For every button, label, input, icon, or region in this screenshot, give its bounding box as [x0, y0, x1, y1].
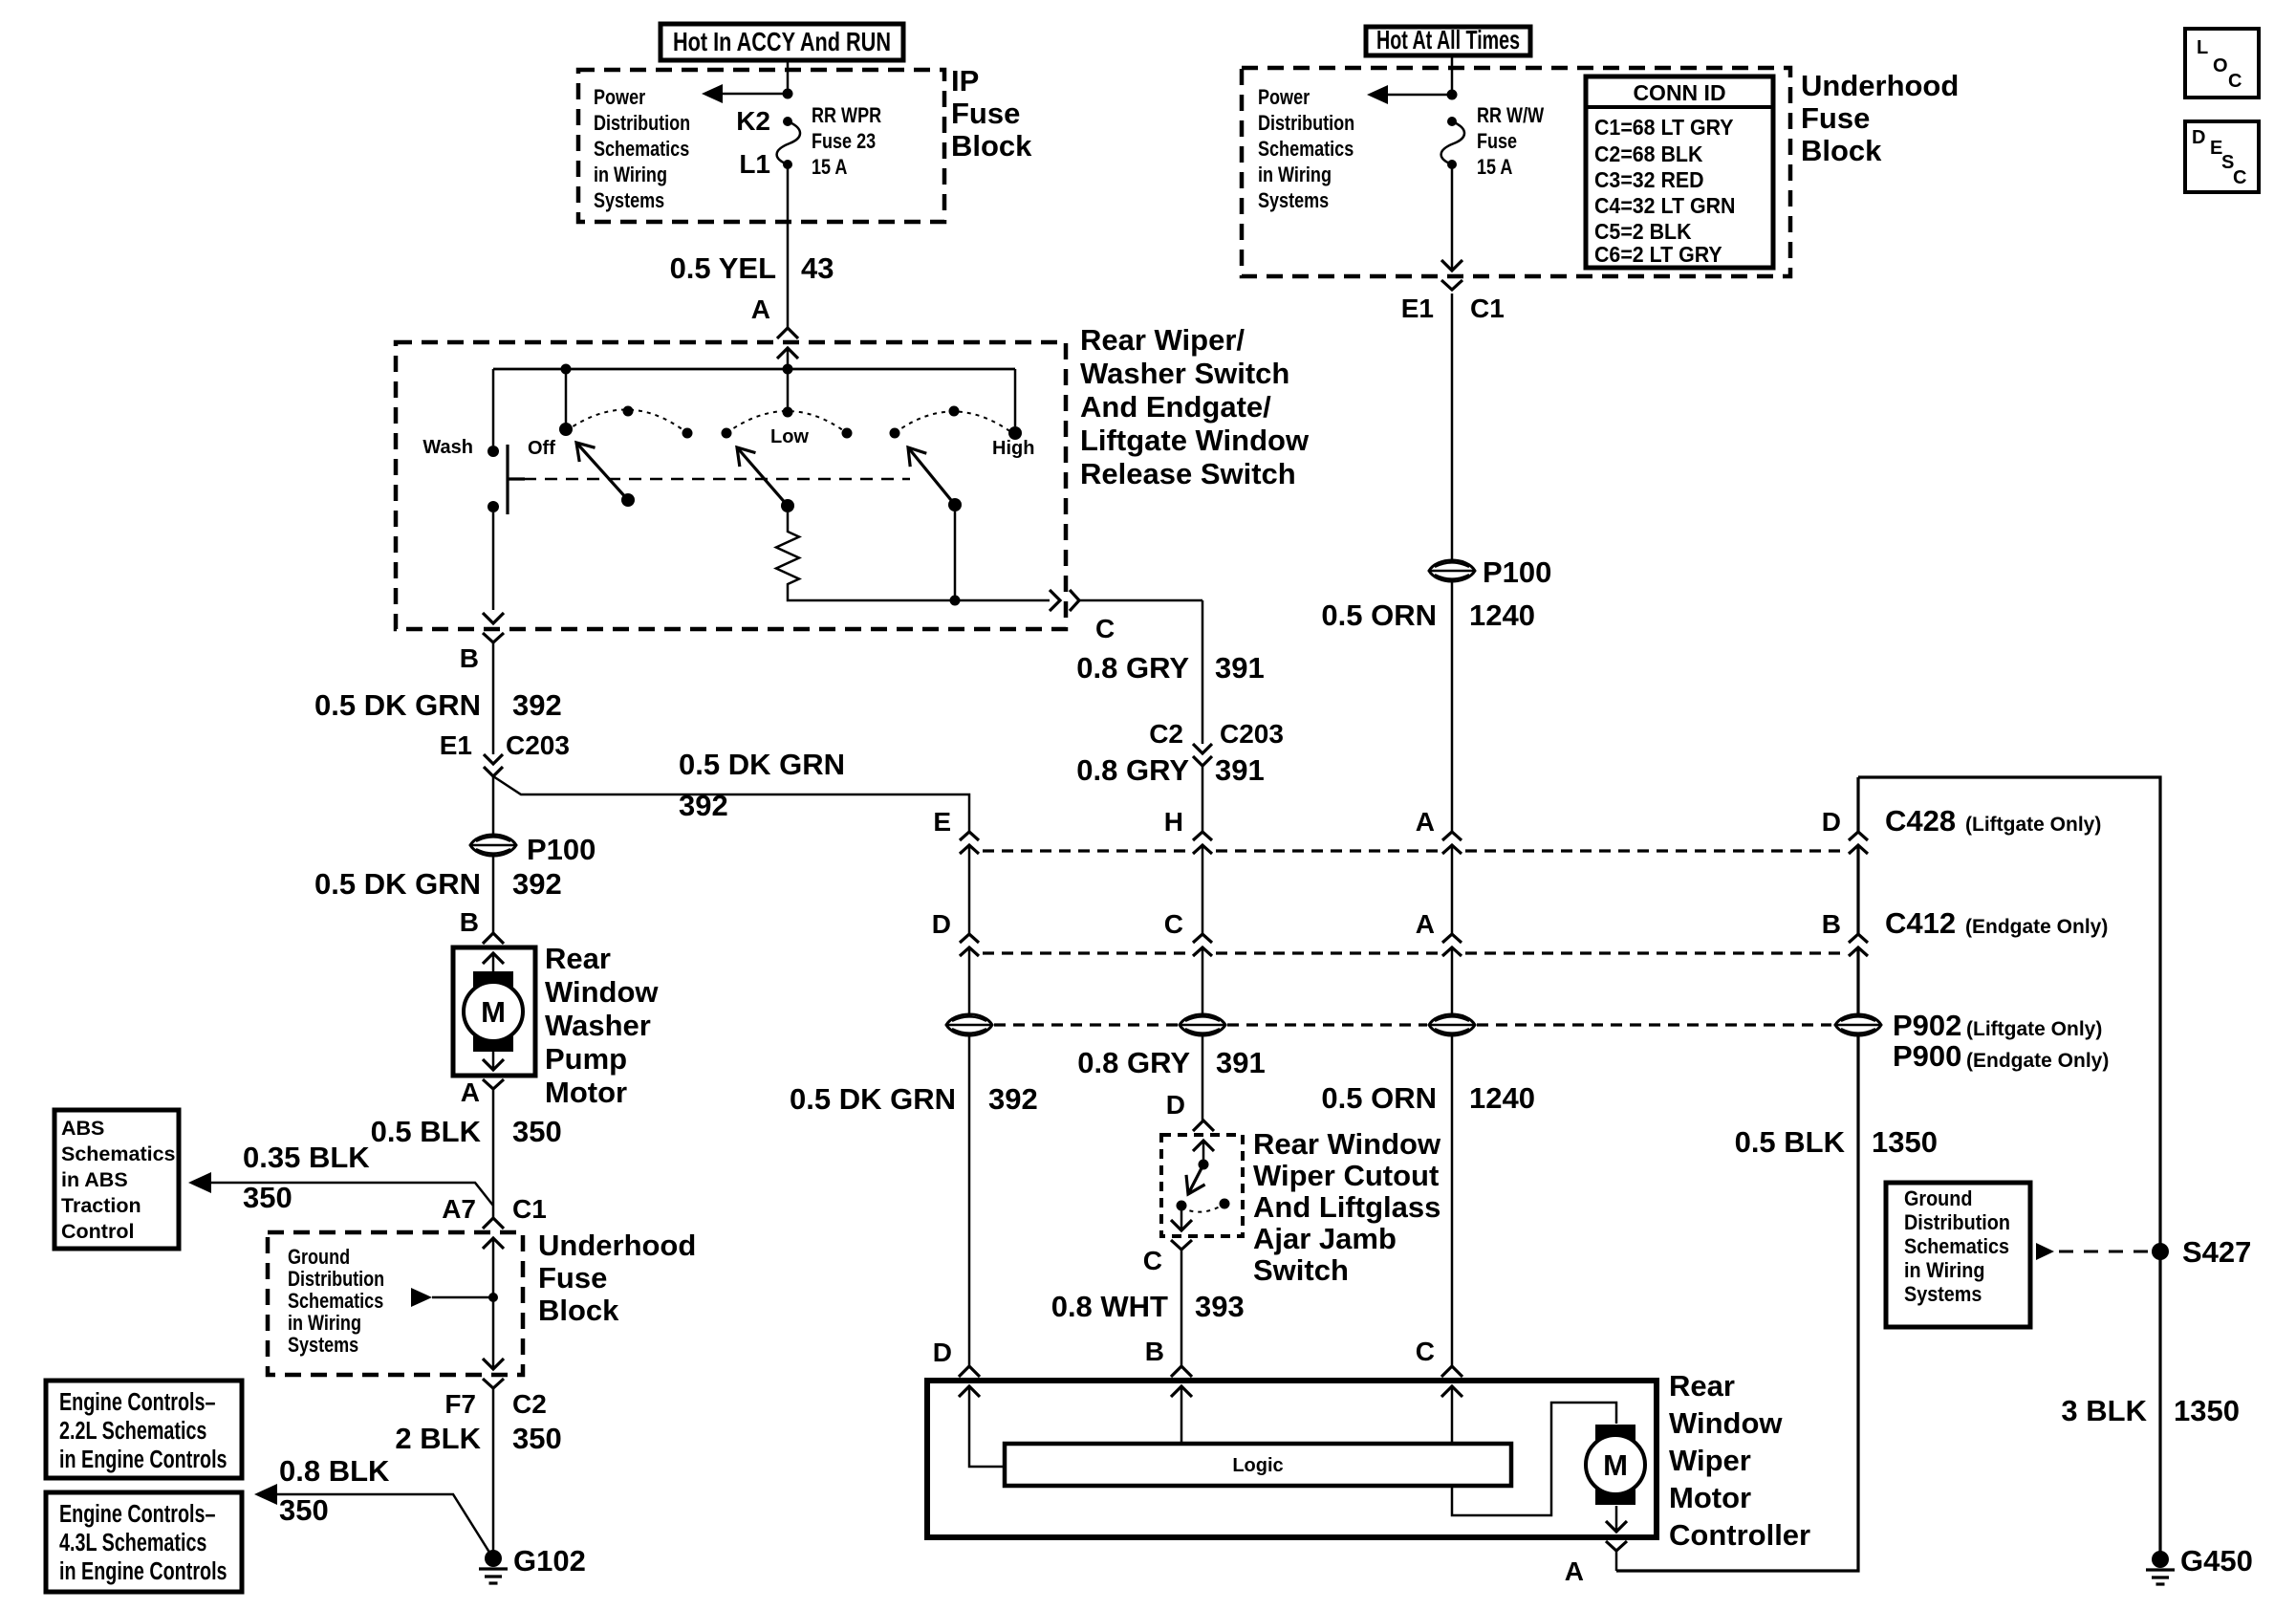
svg-text:0.8 GRY: 0.8 GRY — [1076, 753, 1189, 787]
svg-text:Logic: Logic — [1232, 1455, 1283, 1476]
svg-text:And Liftglass: And Liftglass — [1253, 1190, 1440, 1224]
svg-text:(Endgate Only): (Endgate Only) — [1966, 1050, 2109, 1072]
svg-text:P900: P900 — [1893, 1039, 1961, 1073]
svg-text:Liftgate Window: Liftgate Window — [1080, 424, 1310, 457]
svg-text:in ABS: in ABS — [61, 1168, 128, 1191]
svg-text:2.2L Schematics: 2.2L Schematics — [59, 1416, 206, 1444]
svg-text:Switch: Switch — [1253, 1253, 1349, 1287]
svg-text:Distribution: Distribution — [594, 112, 690, 135]
svg-text:L: L — [2197, 37, 2208, 58]
svg-text:A: A — [1565, 1556, 1584, 1586]
svg-text:D: D — [1822, 807, 1841, 837]
svg-text:G102: G102 — [513, 1544, 586, 1577]
svg-text:Fuse: Fuse — [538, 1261, 607, 1295]
svg-text:392: 392 — [512, 688, 562, 722]
svg-text:Ajar Jamb: Ajar Jamb — [1253, 1222, 1397, 1255]
svg-text:Schematics: Schematics — [594, 138, 689, 161]
svg-text:Hot In ACCY And RUN: Hot In ACCY And RUN — [673, 27, 891, 56]
svg-text:0.5 YEL: 0.5 YEL — [670, 251, 776, 285]
svg-text:B: B — [460, 907, 479, 937]
svg-text:0.5 BLK: 0.5 BLK — [371, 1115, 482, 1148]
svg-text:Washer Switch: Washer Switch — [1080, 357, 1289, 390]
svg-text:Release Switch: Release Switch — [1080, 457, 1296, 490]
svg-text:391: 391 — [1215, 651, 1265, 685]
svg-text:H: H — [1164, 807, 1183, 837]
svg-text:A7: A7 — [442, 1194, 476, 1224]
svg-text:IP: IP — [951, 64, 979, 98]
svg-text:350: 350 — [243, 1181, 292, 1214]
svg-text:K2: K2 — [736, 106, 770, 136]
svg-text:D: D — [1166, 1090, 1185, 1120]
svg-text:P902: P902 — [1893, 1009, 1961, 1042]
svg-text:B: B — [1822, 909, 1841, 939]
svg-text:And Endgate/: And Endgate/ — [1080, 390, 1271, 424]
svg-text:C1: C1 — [1470, 294, 1505, 323]
svg-text:Systems: Systems — [594, 189, 664, 212]
svg-text:C4=32 LT GRN: C4=32 LT GRN — [1594, 193, 1735, 218]
svg-text:0.5 ORN: 0.5 ORN — [1321, 1081, 1437, 1115]
svg-text:0.5 BLK: 0.5 BLK — [1735, 1125, 1846, 1159]
svg-text:392: 392 — [679, 789, 728, 822]
svg-text:1350: 1350 — [1872, 1125, 1938, 1159]
svg-text:Underhood: Underhood — [538, 1229, 696, 1262]
svg-text:C6=2 LT GRY: C6=2 LT GRY — [1594, 242, 1722, 267]
svg-text:0.8 BLK: 0.8 BLK — [279, 1454, 390, 1488]
svg-text:F7: F7 — [444, 1389, 476, 1419]
svg-text:Schematics: Schematics — [1904, 1235, 2009, 1258]
svg-text:Systems: Systems — [1904, 1283, 1982, 1306]
svg-text:RR WPR: RR WPR — [812, 104, 882, 127]
svg-text:L1: L1 — [739, 149, 770, 179]
svg-text:C428: C428 — [1885, 804, 1956, 838]
svg-text:350: 350 — [279, 1493, 329, 1527]
svg-text:in Engine Controls: in Engine Controls — [59, 1556, 227, 1584]
svg-text:E: E — [933, 807, 951, 837]
svg-text:Rear: Rear — [545, 942, 611, 975]
svg-text:Block: Block — [1801, 134, 1882, 167]
svg-text:Ground: Ground — [1904, 1187, 1972, 1210]
svg-text:0.8 WHT: 0.8 WHT — [1051, 1290, 1168, 1323]
svg-text:350: 350 — [512, 1422, 562, 1455]
svg-text:Pump: Pump — [545, 1042, 627, 1076]
svg-text:C1: C1 — [512, 1194, 547, 1224]
svg-text:Wash: Wash — [422, 437, 473, 458]
svg-text:in Engine Controls: in Engine Controls — [59, 1445, 227, 1472]
svg-text:C3=32 RED: C3=32 RED — [1594, 167, 1704, 192]
svg-text:C203: C203 — [506, 730, 570, 760]
svg-text:Schematics: Schematics — [288, 1290, 383, 1313]
svg-text:Hot At All Times: Hot At All Times — [1376, 25, 1520, 54]
svg-text:0.5 DK GRN: 0.5 DK GRN — [679, 748, 845, 781]
svg-text:B: B — [460, 643, 479, 673]
svg-text:A: A — [1416, 909, 1435, 939]
svg-text:S427: S427 — [2182, 1235, 2251, 1269]
svg-text:0.8 GRY: 0.8 GRY — [1076, 651, 1189, 685]
svg-text:(Liftgate Only): (Liftgate Only) — [1966, 1018, 2102, 1040]
svg-text:Low: Low — [770, 426, 809, 447]
svg-text:C5=2 BLK: C5=2 BLK — [1594, 219, 1692, 244]
svg-text:Washer: Washer — [545, 1009, 651, 1042]
svg-text:Off: Off — [528, 438, 555, 459]
svg-text:Schematics: Schematics — [1258, 138, 1354, 161]
svg-text:Distribution: Distribution — [1258, 112, 1354, 135]
svg-text:C: C — [1416, 1337, 1435, 1366]
svg-text:Controller: Controller — [1669, 1518, 1810, 1552]
svg-text:Motor: Motor — [1669, 1481, 1751, 1514]
svg-text:392: 392 — [512, 867, 562, 901]
svg-text:D: D — [2192, 127, 2205, 148]
svg-text:Fuse: Fuse — [1801, 101, 1870, 135]
svg-text:C412: C412 — [1885, 906, 1956, 940]
svg-text:0.5 DK GRN: 0.5 DK GRN — [314, 688, 481, 722]
svg-text:Control: Control — [61, 1220, 134, 1243]
svg-text:0.8 GRY: 0.8 GRY — [1077, 1046, 1190, 1079]
svg-text:C: C — [1143, 1246, 1162, 1275]
svg-text:C: C — [1164, 909, 1183, 939]
svg-text:Engine Controls–: Engine Controls– — [59, 1499, 216, 1527]
svg-text:Traction: Traction — [61, 1194, 141, 1217]
svg-text:A: A — [751, 294, 770, 324]
svg-text:E1: E1 — [1401, 294, 1434, 323]
svg-text:(Endgate Only): (Endgate Only) — [1965, 916, 2108, 938]
svg-text:Motor: Motor — [545, 1076, 627, 1109]
svg-text:15 A: 15 A — [1477, 156, 1512, 179]
svg-text:1350: 1350 — [2174, 1394, 2240, 1427]
svg-text:Wiper Cutout: Wiper Cutout — [1253, 1159, 1439, 1192]
svg-text:ABS: ABS — [61, 1117, 104, 1140]
svg-text:C1=68 LT GRY: C1=68 LT GRY — [1594, 115, 1734, 140]
svg-text:in Wiring: in Wiring — [594, 163, 667, 186]
svg-text:350: 350 — [512, 1115, 562, 1148]
svg-text:C2: C2 — [512, 1389, 547, 1419]
svg-text:43: 43 — [801, 251, 834, 285]
svg-text:0.5 DK GRN: 0.5 DK GRN — [314, 867, 481, 901]
svg-text:Power: Power — [594, 86, 645, 109]
svg-text:Rear: Rear — [1669, 1369, 1735, 1403]
svg-text:Fuse 23: Fuse 23 — [812, 130, 876, 153]
svg-text:CONN ID: CONN ID — [1633, 80, 1725, 105]
svg-text:393: 393 — [1195, 1290, 1245, 1323]
svg-text:C2: C2 — [1149, 719, 1183, 749]
svg-text:in Wiring: in Wiring — [288, 1312, 361, 1335]
svg-text:392: 392 — [988, 1082, 1038, 1116]
svg-text:Power: Power — [1258, 86, 1310, 109]
svg-text:Systems: Systems — [288, 1334, 358, 1357]
svg-text:A: A — [461, 1077, 480, 1107]
svg-text:O: O — [2213, 55, 2228, 76]
svg-text:Engine Controls–: Engine Controls– — [59, 1387, 216, 1415]
svg-text:Wiper: Wiper — [1669, 1444, 1751, 1477]
svg-text:C203: C203 — [1220, 719, 1284, 749]
svg-text:Rear Window: Rear Window — [1253, 1127, 1441, 1161]
svg-text:in Wiring: in Wiring — [1904, 1259, 1984, 1282]
svg-text:Systems: Systems — [1258, 189, 1329, 212]
svg-text:P100: P100 — [527, 833, 596, 866]
svg-text:C: C — [1095, 614, 1115, 643]
svg-text:Rear Wiper/: Rear Wiper/ — [1080, 323, 1245, 357]
svg-text:4.3L Schematics: 4.3L Schematics — [59, 1528, 206, 1556]
svg-text:391: 391 — [1215, 753, 1265, 787]
svg-text:Fuse: Fuse — [1477, 130, 1517, 153]
svg-text:0.35 BLK: 0.35 BLK — [243, 1141, 370, 1174]
svg-text:E1: E1 — [440, 730, 472, 760]
svg-text:15 A: 15 A — [812, 156, 847, 179]
svg-text:G450: G450 — [2180, 1544, 2253, 1577]
svg-text:A: A — [1416, 807, 1435, 837]
svg-text:P100: P100 — [1483, 555, 1551, 589]
svg-text:Distribution: Distribution — [288, 1268, 384, 1291]
svg-text:C2=68 BLK: C2=68 BLK — [1594, 141, 1702, 166]
svg-text:1240: 1240 — [1469, 598, 1535, 632]
svg-text:Window: Window — [545, 975, 659, 1009]
svg-text:Window: Window — [1669, 1406, 1783, 1440]
svg-text:C: C — [2228, 71, 2242, 92]
svg-text:1240: 1240 — [1469, 1081, 1535, 1115]
svg-text:Block: Block — [951, 129, 1032, 163]
svg-text:Block: Block — [538, 1294, 619, 1327]
svg-text:D: D — [933, 1338, 952, 1367]
svg-text:Distribution: Distribution — [1904, 1211, 2010, 1234]
svg-text:in Wiring: in Wiring — [1258, 163, 1332, 186]
svg-text:2 BLK: 2 BLK — [395, 1422, 481, 1455]
svg-text:Underhood: Underhood — [1801, 69, 1959, 102]
svg-text:B: B — [1145, 1337, 1164, 1366]
svg-text:Ground: Ground — [288, 1246, 350, 1269]
svg-text:Schematics: Schematics — [61, 1142, 176, 1165]
svg-text:Fuse: Fuse — [951, 97, 1020, 130]
svg-text:RR W/W: RR W/W — [1477, 104, 1544, 127]
svg-text:391: 391 — [1216, 1046, 1266, 1079]
svg-text:High: High — [992, 438, 1034, 459]
svg-text:0.5 ORN: 0.5 ORN — [1321, 598, 1437, 632]
svg-text:C: C — [2233, 167, 2246, 188]
svg-text:0.5 DK GRN: 0.5 DK GRN — [790, 1082, 956, 1116]
svg-text:3 BLK: 3 BLK — [2061, 1394, 2147, 1427]
svg-text:D: D — [932, 909, 951, 939]
svg-text:(Liftgate Only): (Liftgate Only) — [1965, 814, 2101, 836]
